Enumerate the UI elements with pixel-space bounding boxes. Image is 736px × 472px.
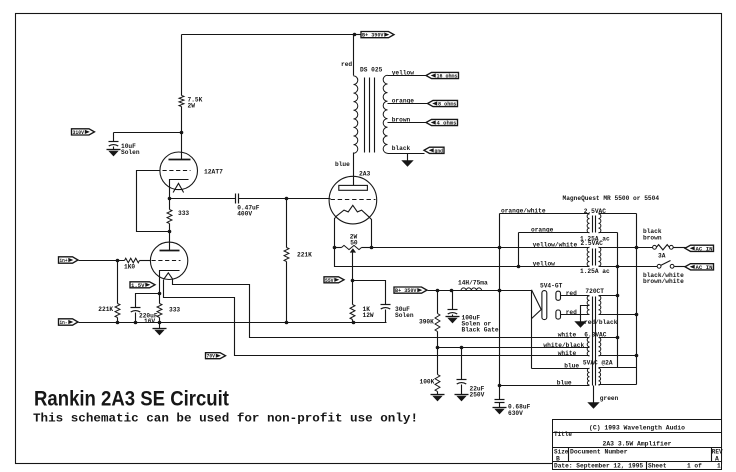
node 221K input top (116, 259, 120, 263)
tag 310V (72, 129, 95, 135)
node orange-yellow junction (517, 265, 521, 269)
title block date divider (646, 462, 648, 470)
tube U1a 12AT7 upper triode envelope (160, 152, 198, 190)
svg-text:1 of: 1 of (687, 462, 702, 469)
wire T2 right bottom (599, 232, 618, 234)
svg-text:white: white (558, 332, 577, 339)
transformer T3 2.5VAC lower left winding (587, 247, 589, 266)
node hum pot left (333, 246, 337, 250)
svg-text:in+: in+ (60, 258, 68, 264)
wire 720 right bottom (599, 314, 637, 316)
svg-text:221K: 221K (297, 251, 312, 258)
V1b grid dashed (152, 260, 181, 262)
transformer T2 core (592, 216, 594, 233)
tag gnd (424, 147, 444, 153)
rectifier V3 plate 1 (556, 291, 561, 300)
node 220uF bottom (134, 321, 138, 325)
ground green (593, 402, 595, 404)
transformer T4 HV primary winding (599, 296, 601, 315)
wire AC vertical V1 (617, 233, 619, 368)
rectifier V3 plate 2 (556, 310, 561, 319)
svg-text:50: 50 (350, 239, 358, 246)
svg-text:brown/white: brown/white (643, 278, 684, 285)
node 55V junction (351, 279, 355, 283)
wire B+ line (428, 290, 532, 292)
svg-text:2A3: 2A3 (359, 171, 371, 178)
wire grid node to 2A3 (287, 198, 331, 200)
svg-text:16V: 16V (144, 318, 155, 325)
svg-text:12W: 12W (363, 312, 374, 319)
svg-text:16 ohms: 16 ohms (437, 74, 458, 80)
svg-text:70V: 70V (207, 354, 216, 360)
choke L 14H/75ma (461, 288, 482, 291)
svg-text:yellow: yellow (392, 69, 415, 76)
wire plate2 red (561, 314, 590, 316)
wire 0.68uF lead (499, 386, 501, 400)
wire to 220uF (136, 294, 160, 308)
rectifier V3 5V4 filament (532, 290, 542, 319)
resistor R 1K 12W (350, 305, 355, 320)
capacitor C 10uF Solen (109, 141, 119, 143)
svg-text:Black Gate: Black Gate (462, 327, 499, 334)
svg-text:2.5VAC: 2.5VAC (584, 208, 607, 215)
wire heater B (164, 280, 590, 356)
tag 4 ohms (426, 119, 458, 125)
svg-text:Size: Size (554, 448, 569, 455)
V1b heater (164, 273, 173, 279)
svg-text:390K: 390K (419, 318, 434, 325)
wire 6.3 right top (599, 337, 618, 339)
wire 220uF bottom (135, 313, 137, 323)
wire 333 upper leads (169, 199, 171, 210)
svg-text:630V: 630V (508, 410, 523, 417)
title block row lines (553, 432, 722, 434)
wire 310V (114, 132, 182, 134)
tag AC IN lower (685, 264, 714, 270)
svg-text:DS 025: DS 025 (360, 67, 383, 74)
node V1-heater junction (616, 336, 620, 340)
wire yellow/white line (372, 247, 590, 249)
svg-text:400V: 400V (237, 211, 252, 218)
svg-text:red: red (566, 290, 577, 297)
transformer T4 HV secondary winding (587, 296, 589, 315)
svg-text:yellow: yellow (533, 260, 556, 267)
svg-text:333: 333 (178, 210, 189, 217)
svg-text:5V4-GT: 5V4-GT (540, 283, 563, 290)
resistor R 333 upper (167, 210, 172, 224)
svg-text:black: black (392, 145, 411, 152)
node V2 fuse junction (635, 246, 639, 250)
ground 10uF (113, 147, 115, 150)
resistor hum pot 50 ohm (335, 247, 342, 249)
wire OPT sec orange tap (388, 103, 428, 105)
node ow-yw junction (498, 246, 502, 250)
wire switch line (599, 266, 658, 268)
wire orange/white line (500, 213, 590, 215)
wire 100K top (437, 348, 439, 375)
node B+ vertical junction (498, 289, 502, 293)
svg-text:Date: September 12, 1995: Date: September 12, 1995 (554, 462, 643, 469)
node 22uF top (460, 346, 464, 350)
svg-text:2W: 2W (188, 103, 196, 110)
wire wiper down (352, 253, 354, 305)
ground OPT secondary (407, 154, 409, 161)
node V1a cathode junction (168, 197, 172, 201)
node V1-720 junction (616, 294, 620, 298)
svg-text:REV: REV (712, 448, 723, 455)
wire red/black center tap (581, 306, 590, 321)
svg-text:green: green (600, 395, 619, 402)
wire fuse to tag (674, 247, 686, 249)
resistor R 390K (435, 314, 440, 332)
svg-text:yellow/white: yellow/white (533, 241, 578, 248)
tag 8 ohms (428, 100, 458, 106)
tag 70V (206, 353, 226, 359)
wire AC vertical V2 (636, 214, 638, 385)
capacitor C 22uF 250V (457, 379, 467, 381)
wire fuse line (599, 247, 653, 249)
svg-text:1: 1 (717, 462, 721, 469)
tube U1b 12AT7 lower triode envelope (150, 242, 187, 279)
svg-text:720CT: 720CT (585, 288, 604, 295)
wire 100uF lead (452, 291, 454, 310)
wire orange/white vertical (499, 214, 501, 386)
svg-text:white/black: white/black (543, 342, 584, 349)
svg-text:5VAC @2A: 5VAC @2A (583, 360, 613, 367)
node choke out (498, 289, 502, 293)
hum pot wiper arrow (350, 249, 356, 253)
wire 221K input vertical (117, 261, 119, 304)
wire 7.5K top (181, 35, 183, 96)
svg-text:Title: Title (554, 431, 572, 438)
svg-text:AC IN: AC IN (696, 265, 713, 271)
node 2A3 grid junction (285, 197, 289, 201)
wire 10uF lead (113, 133, 115, 142)
resistor R 1K0 (125, 258, 140, 263)
svg-text:3A: 3A (658, 252, 666, 259)
transformer T4 5V primary (599, 368, 601, 385)
svg-text:red: red (341, 61, 352, 68)
transformer T1 OPT primary winding (354, 76, 358, 153)
capacitor C 220uF 16V (131, 307, 141, 309)
svg-text:1.25A ac: 1.25A ac (580, 268, 610, 275)
resistor R 7.5K 2W (179, 96, 184, 107)
svg-text:12AT7: 12AT7 (204, 168, 223, 175)
wire 390K leads (437, 291, 439, 314)
transformer T3 right winding (599, 247, 601, 266)
tag 16 ohms (426, 72, 459, 78)
svg-text:310V: 310V (73, 130, 85, 136)
wire OPT sec brown tap (388, 122, 427, 124)
svg-text:orange/white: orange/white (501, 207, 546, 214)
svg-text:This schematic can be used for: This schematic can be used for non-profi… (33, 413, 418, 426)
capacitor C 100uF (448, 309, 458, 311)
wire ground rail (79, 322, 387, 324)
svg-text:blue: blue (335, 161, 350, 168)
node 310V junction (180, 131, 184, 135)
resistor R 100K (435, 375, 440, 392)
wire 22uF bottom (461, 385, 463, 393)
ground red/black (580, 321, 582, 322)
wire V1b cathode down (159, 274, 161, 304)
wire OPT primary top red (353, 35, 355, 76)
svg-text:2.5VAC: 2.5VAC (581, 240, 604, 247)
node V2-720 junction (635, 313, 639, 317)
wire white/black line (438, 347, 590, 349)
tag 55V (324, 277, 344, 283)
node 333 bottom (158, 321, 162, 325)
svg-text:Rankin 2A3 SE Circuit: Rankin 2A3 SE Circuit (34, 387, 229, 411)
wire V2 plate lead (353, 153, 355, 186)
wire 7.5K bottom (181, 107, 183, 133)
svg-text:B+ 350V: B+ 350V (395, 288, 417, 294)
V2 plate box (339, 185, 368, 190)
svg-text:B+ 390V: B+ 390V (362, 33, 384, 39)
svg-text:2A3 3.5W Amplifier: 2A3 3.5W Amplifier (602, 440, 671, 447)
transformer T4 core (592, 297, 594, 386)
node 221K input bottom (116, 321, 120, 325)
wire switch to tag (675, 266, 686, 268)
node B+ rail junction (353, 33, 357, 37)
tube V2 2A3 envelope (329, 176, 377, 224)
resistor R 221K grid leak (284, 248, 289, 262)
svg-text:red/black: red/black (584, 319, 618, 326)
wire blue bottom (500, 385, 590, 387)
capacitor C 30uF Solen (381, 304, 391, 306)
transformer T2 2.5VAC upper left winding (587, 214, 589, 233)
wire V2 filament legs (335, 218, 336, 248)
wire OPT sec black tap (388, 153, 425, 155)
fuse F1 3A (653, 245, 657, 249)
title block size divider (568, 448, 570, 462)
node V1 switch junction (616, 265, 620, 269)
V1b plate bar (160, 250, 180, 252)
tag in+ (59, 257, 79, 263)
wire rectifier filament vertical (531, 291, 533, 369)
node 0.68uF junction (498, 384, 502, 388)
svg-text:333: 333 (169, 307, 180, 314)
ground 0.68uF (499, 403, 501, 408)
V2 filament (335, 205, 369, 217)
svg-text:(C) 1993 Wavelength Audio: (C) 1993 Wavelength Audio (589, 425, 685, 432)
V1a cathode bracket (170, 180, 189, 185)
ground 22uF (461, 393, 463, 395)
svg-text:1K0: 1K0 (124, 263, 135, 270)
wire in+ to grid (79, 260, 125, 262)
wire V1b plate lead (169, 232, 171, 251)
V1b cathode bracket (160, 271, 180, 274)
svg-text:Document Number: Document Number (570, 448, 628, 455)
transformer T3 core (592, 249, 594, 266)
resistor R 333 lower (157, 304, 162, 318)
svg-text:4 ohms: 4 ohms (437, 121, 457, 127)
wire V1a plate lead (181, 133, 183, 160)
switch S1 (657, 264, 661, 268)
svg-text:14H/75ma: 14H/75ma (458, 280, 488, 287)
svg-text:white: white (558, 350, 577, 357)
V2 grid dashed (331, 199, 376, 201)
svg-text:gnd: gnd (435, 148, 444, 154)
node heater bias junction (436, 346, 440, 350)
node 221K grid bottom (285, 321, 289, 325)
svg-text:221K: 221K (98, 306, 113, 313)
wire orange line (519, 233, 590, 267)
capacitor C 0.47uF 400V (235, 194, 237, 204)
node V2-heater junction (635, 354, 639, 358)
capacitor C 0.68uF 630V (495, 399, 505, 401)
transformer T4 6.3V primary (599, 338, 601, 356)
ground main rail (159, 323, 161, 329)
wire 333 lower bottom (159, 318, 161, 323)
wire 221K grid leak (286, 199, 288, 248)
tag B+ 350V (394, 287, 427, 293)
wire V1a cathode down (169, 185, 171, 199)
tag in- (59, 319, 79, 325)
svg-text:55V: 55V (325, 278, 334, 284)
wire 1K0 to grid (140, 260, 151, 262)
svg-text:brown: brown (643, 234, 662, 241)
svg-text:orange: orange (392, 97, 415, 104)
svg-text:brown: brown (392, 117, 411, 124)
tag B+ 390V (361, 32, 394, 38)
wire T2 right top (599, 213, 637, 215)
wire 1K bottom (352, 320, 354, 323)
svg-text:250V: 250V (470, 392, 485, 399)
ground 100uF (452, 315, 454, 317)
svg-text:Solen: Solen (121, 149, 140, 156)
svg-text:Solen: Solen (395, 312, 414, 319)
tag 1.5V (130, 282, 155, 288)
node hum pot right (370, 246, 374, 250)
V1a heater (173, 183, 184, 192)
wire plate1 red (561, 295, 590, 297)
wire cathode to coupling cap (170, 198, 236, 200)
node 100uF top (450, 289, 454, 293)
svg-text:8 ohms: 8 ohms (438, 102, 457, 108)
wire green shield (593, 386, 595, 403)
node cathode bypass tap (158, 292, 162, 296)
wire 30uF bottom (385, 310, 387, 323)
svg-text:MagneQuest MR 5500 or 5504: MagneQuest MR 5500 or 5504 (563, 195, 660, 202)
wire OPT sec yellow tap (388, 75, 427, 77)
wire 22uF lead (461, 348, 463, 380)
wire heater A (173, 280, 590, 338)
V1a plate bar (169, 159, 191, 161)
svg-text:AC IN: AC IN (696, 246, 713, 252)
node 390K top (436, 289, 440, 293)
svg-text:1.5V: 1.5V (131, 283, 145, 289)
transformer T1 OPT core (364, 78, 366, 153)
node 1K 12W bottom (352, 321, 356, 325)
wire B+ rail to tag (355, 34, 362, 36)
wire 6.3 right bottom (599, 355, 637, 357)
svg-text:in-: in- (60, 320, 68, 326)
wire coupling cap to grid node (239, 198, 287, 200)
node SRPP junction (168, 230, 172, 234)
transformer T1 OPT secondary winding (383, 75, 387, 153)
svg-text:100K: 100K (420, 379, 435, 386)
wire blue top (532, 368, 590, 370)
transformer T4 6.3V winding (587, 338, 589, 356)
resistor R 221K input (115, 304, 120, 318)
svg-text:orange: orange (531, 226, 554, 233)
wire to 30uF (353, 281, 386, 305)
tag AC IN upper (685, 245, 714, 251)
transformer T4 5V winding (587, 368, 589, 385)
wire yellow line (335, 248, 590, 267)
rectifier V3 cathode bar (542, 291, 547, 320)
svg-text:red: red (566, 309, 577, 316)
V1a grid dashed (163, 170, 191, 172)
svg-text:B: B (556, 455, 560, 462)
svg-text:Sheet: Sheet (648, 462, 667, 469)
wire B+ top rail (182, 34, 355, 36)
title block outline (553, 420, 722, 470)
wire 720 right top (599, 295, 618, 297)
ground 100K (437, 392, 439, 395)
wire 5V right loop (599, 368, 637, 385)
wire V1a grid left (137, 171, 170, 232)
svg-text:A: A (715, 455, 719, 462)
transformer T2 right winding (599, 214, 601, 233)
